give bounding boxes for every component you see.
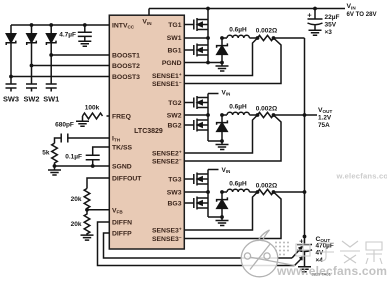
svg-text:TG1: TG1 bbox=[168, 22, 181, 29]
svg-text:20k: 20k bbox=[71, 196, 82, 203]
transistor Q2 bottom NMOS ch1 (BG1) bbox=[184, 44, 208, 57]
node INTVCC/D2 junction bbox=[30, 23, 34, 27]
node BOOST1 junction bbox=[49, 53, 53, 57]
wire ch1 output bbox=[274, 37, 305, 39]
pin label VIN (top) bbox=[142, 19, 152, 26]
svg-text:1.2V: 1.2V bbox=[318, 114, 332, 121]
transistor Q6 bottom NMOS ch3 (BG3) bbox=[184, 197, 208, 210]
net label VIN ch3 stub bbox=[222, 167, 231, 174]
value label 680pF bbox=[55, 122, 74, 129]
node gnd2/D5 junction bbox=[220, 139, 224, 143]
pin label DIFFOUT bbox=[112, 175, 142, 182]
svg-text:SW2: SW2 bbox=[167, 112, 182, 119]
svg-text:470µF: 470µF bbox=[316, 243, 334, 250]
svg-text:0.6µH: 0.6µH bbox=[229, 180, 247, 187]
pin label SW2 bbox=[167, 112, 182, 119]
svg-text:35V: 35V bbox=[325, 21, 337, 28]
node SW1/D4 junction bbox=[220, 36, 224, 40]
svg-text:22µF: 22µF bbox=[325, 14, 340, 21]
net label VIN ch2 stub bbox=[222, 89, 231, 96]
value label 20k lower bbox=[71, 221, 82, 228]
svg-text:w.elecfans.com: w.elecfans.com bbox=[336, 172, 387, 181]
ground (under 100k) bbox=[76, 116, 89, 126]
svg-text:×3: ×3 bbox=[325, 29, 333, 36]
wire ITH bbox=[68, 137, 110, 139]
pin label TG2 bbox=[168, 100, 181, 107]
wire SENSE2- kelvin bbox=[184, 115, 281, 161]
pin label BG2 bbox=[168, 122, 182, 129]
figure number 3829 TA01 bbox=[312, 272, 332, 277]
resistor R5 0.002ohm sense ch1 bbox=[258, 35, 274, 40]
svg-text:75A: 75A bbox=[318, 122, 330, 129]
pin label FREQ bbox=[112, 113, 131, 120]
ground (under 5k) bbox=[48, 166, 61, 175]
ground (ch3 power) bbox=[216, 217, 229, 226]
wire SENSE1+ kelvin bbox=[184, 38, 257, 76]
watermark url top bbox=[336, 172, 387, 181]
pin label INTVCC bbox=[112, 22, 135, 29]
svg-text:6V TO 28V: 6V TO 28V bbox=[347, 11, 378, 18]
inductor L2 0.6uH ch2 bbox=[222, 112, 258, 115]
svg-text:0.6µH: 0.6µH bbox=[229, 26, 247, 33]
wire VIN stub ch2 bbox=[208, 93, 219, 95]
svg-text:www.elecfans.com: www.elecfans.com bbox=[276, 264, 387, 278]
value label 0.6uH ch1 bbox=[229, 26, 247, 33]
pin label ITH bbox=[112, 135, 121, 142]
wire SENSE1- kelvin bbox=[184, 38, 281, 84]
node gnd3/D6 junction bbox=[220, 215, 224, 219]
svg-text:SENSE2+: SENSE2+ bbox=[152, 149, 182, 157]
diode D3 (schottky, INTVCC to BOOST3) bbox=[10, 25, 12, 34]
pin label DIFFP bbox=[112, 230, 132, 237]
wire SGND bbox=[55, 165, 110, 167]
svg-text:SENSE3+: SENSE3+ bbox=[152, 226, 182, 234]
node sense3 right junction bbox=[272, 190, 276, 194]
svg-text:BG1: BG1 bbox=[168, 47, 182, 54]
ground (ch1 power) bbox=[216, 63, 229, 72]
wire DIFFN remote sense bbox=[98, 222, 295, 266]
node VIN rail / C4 bbox=[313, 7, 317, 11]
pin label SENSE2+ bbox=[152, 149, 182, 157]
wire SW3 bbox=[184, 191, 208, 193]
ground (under 20k) bbox=[81, 235, 94, 240]
wire VIN top rail bbox=[149, 9, 345, 16]
svg-text:BOOST2: BOOST2 bbox=[112, 63, 140, 70]
net label SW3 bbox=[3, 94, 19, 103]
plus sign COUT bbox=[299, 237, 304, 246]
svg-text:SENSE3−: SENSE3− bbox=[152, 235, 182, 243]
resistor R3 20k (upper feedback) bbox=[84, 189, 90, 210]
net label SW2 bbox=[23, 94, 39, 103]
arrowhead DIFFN bbox=[299, 256, 305, 261]
diode D5 schottky ch2 bbox=[217, 115, 228, 125]
transistor Q1 top NMOS ch1 (TG1) bbox=[184, 18, 208, 31]
svg-text:DIFFOUT: DIFFOUT bbox=[112, 175, 142, 182]
transistor Q3 top NMOS ch2 (TG2) bbox=[184, 96, 208, 109]
wire VFB bbox=[87, 209, 109, 211]
pin label SENSE2- bbox=[152, 157, 182, 165]
value label 4.7uF bbox=[59, 32, 76, 39]
svg-text:0.002Ω: 0.002Ω bbox=[256, 27, 277, 34]
ground (under 22uF) bbox=[309, 30, 322, 35]
resistor R6 0.002ohm sense ch2 bbox=[258, 112, 274, 117]
svg-text:SENSE1+: SENSE1+ bbox=[152, 72, 182, 80]
pin label SGND bbox=[112, 163, 132, 170]
value label 22uF 35V x3 bbox=[325, 14, 340, 36]
svg-text:SENSE1−: SENSE1− bbox=[152, 80, 182, 88]
wire BOOST1 bbox=[51, 54, 109, 56]
node VOUT bus / ch3 output bbox=[303, 190, 307, 194]
resistor R7 0.002ohm sense ch3 bbox=[258, 189, 274, 194]
watermark url bottom bbox=[276, 264, 387, 278]
pin label SENSE3+ bbox=[152, 226, 182, 234]
pin label TG1 bbox=[168, 22, 181, 29]
node sense2 right junction bbox=[272, 113, 276, 117]
wire VOUT bus bbox=[304, 38, 306, 237]
wire DIFFN arrow to output ground bbox=[295, 258, 303, 266]
pin label BG3 bbox=[168, 200, 182, 207]
pin label BG1 bbox=[168, 47, 182, 54]
wire SW2 bbox=[184, 114, 208, 116]
wire ch3 lower conductor bbox=[208, 192, 222, 217]
capacitor CB1 (boost cap to SW1) bbox=[46, 84, 57, 92]
wire node BOOST2 column bbox=[31, 43, 33, 84]
wire VIN stub ch3 bbox=[208, 169, 219, 171]
node 0.1uF/SGND junction bbox=[91, 164, 95, 168]
wire DIFFP remote sense bbox=[104, 233, 293, 258]
node BOOST3 junction bbox=[9, 75, 13, 79]
IC U1 part number label LTC3829 bbox=[134, 128, 163, 135]
svg-text:4.7µF: 4.7µF bbox=[59, 32, 76, 39]
svg-text:PGND: PGND bbox=[162, 60, 182, 67]
node SW3/D6 junction bbox=[220, 190, 224, 194]
svg-text:+: + bbox=[307, 10, 312, 19]
node PGND/D4 junction bbox=[220, 61, 224, 65]
arrowhead DIFFP bbox=[298, 246, 304, 251]
wire BOOST3 bbox=[11, 76, 109, 78]
svg-text:SW1: SW1 bbox=[43, 94, 59, 103]
value label 5k bbox=[42, 150, 50, 157]
wire ch2 switch-node conductor bbox=[207, 94, 209, 116]
resistor R1 100k (FREQ) bbox=[83, 113, 110, 119]
svg-text:TG2: TG2 bbox=[168, 100, 181, 107]
resistor R4 20k (lower feedback) bbox=[84, 210, 90, 235]
svg-text:4V: 4V bbox=[316, 250, 325, 257]
node sense1 right junction bbox=[272, 36, 276, 40]
wire INTVCC rail bbox=[11, 24, 109, 26]
svg-text:SGND: SGND bbox=[112, 163, 132, 170]
node INTVCC/D1 junction bbox=[49, 23, 53, 27]
svg-text:BG3: BG3 bbox=[168, 200, 182, 207]
value label 0.002ohm ch1 bbox=[256, 27, 277, 34]
IC U1 LTC3829 body bbox=[109, 15, 184, 249]
net label VIN supply bbox=[347, 3, 378, 18]
capacitor C3 0.1uF (TK/SS) bbox=[86, 155, 100, 166]
diode D6 schottky ch3 bbox=[217, 192, 228, 202]
wire DIFFOUT bbox=[87, 178, 109, 189]
capacitor C2 680pF (ITH) bbox=[61, 134, 68, 143]
svg-text:FREQ: FREQ bbox=[112, 113, 131, 120]
node SW3 junction bbox=[206, 190, 210, 194]
wire ch1 lower conductor bbox=[207, 38, 209, 63]
ground (under 4.7uF) bbox=[78, 41, 91, 46]
wire SENSE3+ kelvin bbox=[184, 192, 257, 230]
svg-text:TK/SS: TK/SS bbox=[112, 144, 132, 151]
svg-text:BOOST1: BOOST1 bbox=[112, 52, 140, 59]
svg-text:DIFFN: DIFFN bbox=[112, 219, 132, 226]
watermark logo circle bbox=[241, 230, 295, 277]
svg-text:SW3: SW3 bbox=[3, 94, 19, 103]
node sense3 left junction bbox=[256, 190, 260, 194]
value label 0.6uH ch2 bbox=[229, 103, 247, 110]
pin label BOOST2 bbox=[112, 63, 140, 70]
wire BOOST2 bbox=[32, 65, 110, 67]
node PGND/Q2 junction bbox=[206, 61, 210, 65]
transistor Q5 top NMOS ch3 (TG3) bbox=[184, 173, 208, 186]
wire PGND bbox=[184, 62, 222, 64]
pin label TK/SS bbox=[112, 144, 132, 151]
diode D4 schottky ch1 bbox=[217, 38, 228, 48]
pin label SENSE1+ bbox=[152, 72, 182, 80]
value label 0.002ohm ch2 bbox=[256, 105, 277, 112]
wire ch2 output to VOUT bbox=[274, 114, 318, 116]
capacitor CB3 (boost cap to SW3) bbox=[6, 84, 17, 92]
svg-text:LTC3829: LTC3829 bbox=[134, 128, 163, 135]
capacitor C1 4.7uF (INTVCC decoupling) bbox=[78, 25, 92, 41]
plus sign 22uF bbox=[307, 10, 312, 19]
node VOUT bus / COUT bbox=[303, 235, 307, 239]
node SW1 junction bbox=[206, 36, 210, 40]
svg-text:SW3: SW3 bbox=[167, 189, 182, 196]
svg-text:SW1: SW1 bbox=[167, 35, 182, 42]
inductor L3 0.6uH ch3 bbox=[222, 189, 258, 192]
wire SENSE2+ kelvin bbox=[184, 115, 257, 153]
node INTVCC/C1 junction bbox=[83, 23, 87, 27]
svg-text:TG3: TG3 bbox=[168, 176, 181, 183]
wire node BOOST3 column bbox=[10, 43, 12, 84]
wire DIFFP arrow to VOUT node bbox=[292, 248, 302, 259]
ground (under COUT) bbox=[298, 267, 311, 272]
pin label TG3 bbox=[168, 176, 181, 183]
node VIN rail / Q1 drain bbox=[206, 7, 210, 11]
net label VOUT bbox=[318, 107, 332, 129]
svg-text:0.6µH: 0.6µH bbox=[229, 103, 247, 110]
pin label PGND bbox=[162, 60, 182, 67]
transistor Q4 bottom NMOS ch2 (BG2) bbox=[184, 119, 208, 132]
node SW2 junction bbox=[206, 113, 210, 117]
wire ch3 switch-node conductor bbox=[207, 170, 209, 193]
svg-text:680pF: 680pF bbox=[55, 122, 74, 129]
diode D1 (schottky, INTVCC to BOOST1) bbox=[50, 25, 52, 34]
svg-text:BOOST3: BOOST3 bbox=[112, 74, 140, 81]
watermark dotted block bbox=[275, 242, 289, 256]
node VFB junction bbox=[85, 208, 89, 212]
capacitor CB2 (boost cap to SW2) bbox=[26, 84, 37, 92]
wire TK/SS bbox=[93, 147, 110, 155]
svg-text:20k: 20k bbox=[71, 221, 82, 228]
watermark glyph strokes bbox=[296, 240, 382, 264]
wire SENSE3- kelvin bbox=[184, 192, 281, 239]
node VOUT bus / ch2 output bbox=[303, 113, 307, 117]
svg-text:0.002Ω: 0.002Ω bbox=[256, 182, 277, 189]
value label 0.002ohm ch3 bbox=[256, 182, 277, 189]
svg-text:0.002Ω: 0.002Ω bbox=[256, 105, 277, 112]
pin label SW3 bbox=[167, 189, 182, 196]
node sense2 left junction bbox=[256, 113, 260, 117]
wire ch1 switch-node conductor bbox=[207, 9, 209, 39]
svg-text:DIFFP: DIFFP bbox=[112, 230, 132, 237]
net label SW1 bbox=[43, 94, 59, 103]
node ITH/SGND junction bbox=[53, 164, 57, 168]
svg-text:BG2: BG2 bbox=[168, 122, 182, 129]
pin label DIFFN bbox=[112, 219, 132, 226]
svg-text:SENSE2−: SENSE2− bbox=[152, 157, 182, 165]
pin label VFB bbox=[112, 207, 123, 214]
pin label BOOST3 bbox=[112, 74, 140, 81]
value label 0.1uF bbox=[65, 154, 82, 161]
resistor R2 5k (ITH) bbox=[52, 143, 58, 166]
svg-text:100k: 100k bbox=[85, 105, 100, 112]
wire ch2 lower conductor bbox=[208, 115, 222, 141]
value label 0.6uH ch3 bbox=[229, 180, 247, 187]
node BOOST2 junction bbox=[30, 64, 34, 68]
capacitor C4 22uF input (x3) bbox=[308, 9, 323, 31]
value label COUT 470uF 4V x4 bbox=[316, 236, 334, 264]
node SW2/D5 junction bbox=[220, 113, 224, 117]
pin label SENSE1- bbox=[152, 80, 182, 88]
svg-text:0.1µF: 0.1µF bbox=[65, 154, 82, 161]
pin label BOOST1 bbox=[112, 52, 140, 59]
capacitor C5 COUT output bbox=[297, 237, 312, 267]
node sense1 left junction bbox=[256, 36, 260, 40]
pin label SENSE3- bbox=[152, 235, 182, 243]
diode D2 (schottky, INTVCC to BOOST2) bbox=[31, 25, 33, 34]
inductor L1 0.6uH ch1 bbox=[222, 35, 258, 38]
svg-text:SW2: SW2 bbox=[23, 94, 39, 103]
pin label SW1 bbox=[167, 35, 182, 42]
wire node BOOST1 column bbox=[50, 43, 52, 84]
value label 20k upper bbox=[71, 196, 82, 203]
wire ch3 output bbox=[274, 191, 305, 193]
wire 680pF to 5k bbox=[55, 138, 62, 143]
wire SW1 bbox=[184, 37, 208, 39]
ground (ch2 power) bbox=[216, 141, 229, 150]
value label 100k bbox=[85, 105, 100, 112]
svg-text:5k: 5k bbox=[42, 150, 50, 157]
